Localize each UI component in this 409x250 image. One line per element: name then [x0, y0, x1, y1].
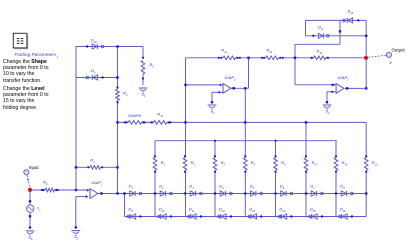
svg-text:R4: R4 [251, 160, 256, 167]
svg-text:Output: Output [392, 48, 406, 53]
svg-text:03: 03 [211, 108, 215, 115]
svg-text:R12: R12 [267, 48, 273, 55]
svg-text:V: V [390, 61, 393, 65]
svg-text:D2: D2 [159, 183, 164, 190]
svg-text:D17: D17 [318, 25, 324, 32]
svg-text:D16: D16 [340, 206, 346, 213]
svg-text:D15: D15 [310, 206, 316, 213]
svg-text:D7: D7 [310, 183, 315, 190]
svg-text:01: 01 [142, 91, 146, 98]
svg-text:D12: D12 [219, 206, 225, 213]
svg-text:R18: R18 [342, 160, 348, 167]
svg-text:R2: R2 [191, 160, 196, 167]
svg-text:D10: D10 [91, 38, 97, 45]
svg-text:IOAP3: IOAP3 [338, 75, 350, 82]
svg-text:vin: vin [37, 206, 41, 212]
svg-text:R8: R8 [150, 62, 155, 69]
svg-text:D9: D9 [128, 206, 133, 213]
svg-text:D1: D1 [129, 183, 134, 190]
svg-text:D5: D5 [250, 183, 255, 190]
svg-text:R3: R3 [221, 160, 226, 167]
svg-text:D4: D4 [219, 183, 224, 190]
svg-text:R11: R11 [221, 48, 227, 55]
svg-text:D6: D6 [280, 183, 285, 190]
svg-text:D9: D9 [91, 68, 96, 75]
svg-text:R17: R17 [312, 160, 318, 167]
svg-text:D16: D16 [348, 9, 354, 16]
svg-text:D3: D3 [189, 183, 194, 190]
svg-text:D13: D13 [249, 206, 255, 213]
svg-text:D14: D14 [279, 206, 285, 213]
svg-text:02: 02 [74, 234, 78, 241]
svg-text:04: 04 [326, 108, 330, 115]
svg-text:D11: D11 [189, 206, 195, 213]
svg-text:D10: D10 [159, 206, 165, 213]
svg-text:R1: R1 [161, 160, 166, 167]
svg-text:R5: R5 [281, 160, 286, 167]
svg-text:SHAPE: SHAPE [128, 113, 142, 118]
svg-text:06: 06 [29, 234, 33, 241]
svg-text:D8: D8 [340, 183, 345, 190]
svg-text:Input: Input [29, 165, 40, 170]
svg-text:R6: R6 [43, 180, 48, 187]
svg-text:R13: R13 [317, 49, 323, 56]
svg-text:R14: R14 [157, 112, 163, 119]
svg-text:R9: R9 [123, 91, 128, 98]
svg-text:IOAP1: IOAP1 [92, 180, 104, 187]
svg-text:R10: R10 [372, 160, 378, 167]
svg-text:IOAP2: IOAP2 [225, 75, 237, 82]
svg-text:R7: R7 [90, 158, 95, 165]
